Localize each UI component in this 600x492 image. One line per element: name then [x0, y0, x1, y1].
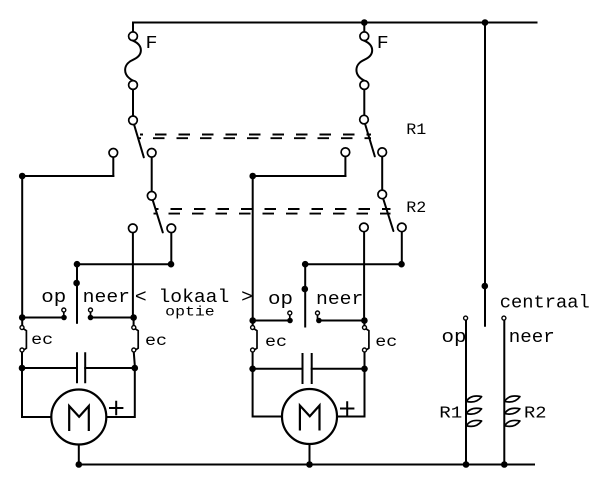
wire fuse F2 to contact R1b — [363, 90, 365, 115]
svg-text:ec: ec — [265, 333, 287, 351]
wire bypass module1 horizontal — [22, 175, 113, 177]
node coil R1 bottom — [463, 461, 470, 468]
pushbutton op module1 — [62, 308, 66, 312]
wire R1a left output down — [112, 158, 114, 176]
pushbutton neer centraal — [502, 316, 506, 320]
wire to ec right module1 top — [133, 318, 135, 326]
wire feed divider module1 — [76, 264, 78, 323]
node row right module2 — [361, 317, 368, 324]
pushbutton op module2 — [288, 311, 292, 315]
wire neer centraal to coil R2 — [503, 321, 505, 465]
wire R1b left output down — [344, 157, 346, 176]
wire common feed module2 horizontal — [305, 263, 402, 265]
wire button row left module1 — [22, 317, 64, 319]
wire button row right module1 — [91, 317, 134, 319]
svg-text:R1: R1 — [439, 404, 462, 423]
wire bypass module2 vertical — [252, 176, 254, 321]
wire motor2 right lead — [337, 369, 365, 417]
node feed module1 left corner — [74, 261, 81, 268]
contact R1b blade — [365, 124, 375, 156]
svg-text:optie: optie — [165, 305, 215, 321]
capacitor C1 — [77, 353, 85, 382]
pushbutton neer module1 — [89, 308, 93, 312]
svg-text:F: F — [377, 34, 389, 54]
contact R1a blade — [134, 125, 144, 157]
polarity plus module1 — [110, 402, 122, 415]
wire common feed module1 horizontal — [77, 263, 171, 265]
wire motor1 to bottom bus — [78, 445, 80, 465]
wire button row left module2 — [253, 320, 290, 322]
node feed module1 mid — [73, 280, 80, 287]
wire from top bus to fuse F1 — [132, 23, 134, 32]
wire to ec left module1 top — [21, 318, 23, 326]
wire R2b left output down to button row — [363, 232, 365, 320]
wire op centraal to coil R1 — [465, 321, 467, 465]
node motor1 bottom — [76, 461, 83, 468]
svg-text:neer: neer — [83, 288, 130, 308]
contact R1b left output — [341, 148, 350, 157]
wire to ec right module2 top — [363, 321, 365, 326]
motor M1 — [51, 390, 106, 445]
wire R1a right output to R2a — [151, 158, 153, 191]
svg-text:F: F — [146, 34, 158, 54]
svg-text:op: op — [442, 328, 467, 348]
wire ec left module1 to cap node — [21, 353, 23, 369]
pushbutton neer module2 — [316, 311, 320, 315]
svg-text:ec: ec — [145, 332, 167, 350]
end-contact ec left module2 — [251, 326, 255, 330]
svg-text:R2: R2 — [406, 199, 426, 217]
wire from top bus to fuse F2 — [363, 23, 365, 32]
wire motor2 to bottom bus — [309, 444, 311, 465]
wire cap left lead module1 — [22, 367, 77, 369]
wire central feed vertical — [484, 23, 486, 326]
node row left module2 — [249, 317, 256, 324]
contact R2a right output — [167, 224, 176, 233]
svg-text:ec: ec — [31, 331, 53, 349]
wire ec right module1 to cap node — [134, 353, 135, 366]
node cap left module1 — [19, 365, 26, 372]
contact R2a blade — [153, 201, 163, 233]
contact R2b input terminal — [378, 190, 387, 199]
node feed module2 mid — [302, 286, 309, 293]
node op contact module1 — [61, 315, 67, 321]
node row left module1 — [19, 314, 26, 321]
node central feed — [482, 283, 489, 290]
contact R1a left output — [109, 149, 118, 158]
contact R1b input terminal — [360, 115, 369, 124]
wire fuse F1 to contact R1a — [132, 90, 134, 116]
node motor2 bottom — [306, 461, 313, 468]
linkage dashed line relay R2 contacts — [156, 208, 391, 210]
contact R2b blade — [383, 199, 393, 231]
wire bypass module1 vertical — [21, 176, 23, 318]
contact R2a input terminal — [147, 192, 156, 201]
node cap right module2 — [361, 366, 368, 373]
node op contact module2 — [287, 318, 293, 324]
node feed module1 right corner — [168, 261, 175, 268]
node cap left module2 — [249, 366, 256, 373]
svg-text:ec: ec — [375, 333, 397, 351]
relay coil R1 — [466, 396, 481, 402]
wire R2b right output down — [401, 232, 403, 264]
linkage dashed line relay R1 contacts — [140, 134, 371, 136]
wire to ec left module2 top — [252, 321, 254, 326]
wire motor1 right lead — [106, 368, 135, 417]
relay coil R2 — [505, 396, 520, 402]
svg-text:op: op — [41, 288, 66, 308]
contact R2a left output — [129, 224, 138, 233]
wire cap left lead module2 — [253, 368, 303, 370]
wire motor2 left lead — [253, 369, 282, 417]
wire R2a right output down — [170, 233, 172, 264]
wire bottom return bus — [79, 464, 534, 466]
contact R1a right output — [147, 149, 156, 158]
svg-text:centraal: centraal — [500, 294, 590, 314]
node feed module2 left corner — [302, 261, 309, 268]
wire feed divider module2 — [304, 264, 306, 326]
capacitor C2 — [303, 354, 312, 383]
end-contact ec right module1 — [132, 326, 136, 330]
node central feed tap — [482, 19, 489, 26]
wire bypass module2 horizontal — [253, 175, 346, 177]
contact R2b right output — [398, 223, 407, 232]
node fuse F2 tap — [361, 19, 368, 26]
contact R1b right output — [378, 148, 387, 157]
polarity plus module2 — [341, 402, 353, 415]
node neer contact module1 — [88, 315, 94, 321]
svg-text:neer: neer — [316, 290, 363, 310]
end-contact ec left module1 — [20, 326, 24, 330]
contact R2b left output — [360, 223, 369, 232]
wire cap right lead module2 — [312, 368, 365, 370]
wire R1b right output to R2b — [381, 157, 383, 190]
wire R2a left output down to button row — [132, 233, 134, 317]
fuse F1 — [129, 32, 138, 41]
motor M2 — [282, 389, 337, 444]
svg-text:R1: R1 — [406, 121, 426, 139]
svg-text:neer: neer — [509, 328, 555, 348]
node bypass module2 corner — [249, 173, 256, 180]
svg-text:op: op — [268, 290, 293, 310]
svg-text:R2: R2 — [524, 404, 547, 423]
end-contact ec right module2 — [363, 326, 367, 330]
node coil R2 bottom — [501, 461, 508, 468]
wire ec left module2 to cap node — [252, 353, 254, 369]
pushbutton op centraal — [464, 316, 468, 320]
node cap right module1 — [132, 365, 139, 372]
node neer contact module2 — [316, 318, 322, 324]
wire button row right module2 — [319, 320, 365, 322]
wire cap right lead module1 — [85, 367, 135, 369]
fuse F2 — [360, 32, 369, 41]
node bypass module1 corner — [19, 173, 26, 180]
wire top supply bus — [133, 22, 537, 24]
wire ec right module2 to cap node — [364, 353, 366, 369]
node feed module2 right corner — [398, 261, 405, 268]
contact R1a input terminal — [129, 116, 138, 125]
wire motor1 left lead — [22, 368, 51, 417]
node row right module1 — [130, 314, 137, 321]
